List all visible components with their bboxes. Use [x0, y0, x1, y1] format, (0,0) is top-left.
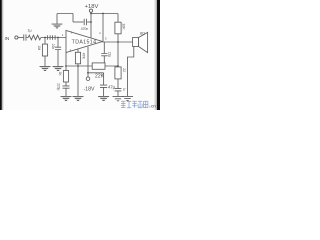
svg-text:TDA1514: TDA1514 — [72, 39, 97, 45]
svg-text:cn: cn — [151, 104, 156, 109]
svg-text:220µ: 220µ — [56, 83, 60, 90]
wire pin2 down — [65, 53, 67, 67]
junction dot -Vs — [87, 72, 89, 74]
wire R2 top — [44, 38, 46, 45]
wire C8 bottom — [65, 88, 67, 96]
junction dot C2 — [90, 21, 92, 23]
ground C8 — [61, 96, 72, 101]
ground R2 — [40, 66, 51, 71]
wire R 10K top — [117, 14, 119, 23]
svg-text:470n: 470n — [81, 27, 89, 31]
svg-text:1K: 1K — [58, 72, 62, 77]
wire bootstrap bottom — [103, 56, 105, 63]
svg-text:22µ: 22µ — [108, 52, 112, 58]
ground decoupling — [52, 24, 63, 28]
wire +Vs rail horizontal — [91, 13, 118, 15]
wire speaker return — [128, 47, 134, 97]
capacitor C2 470n — [84, 19, 86, 25]
wire C6 bottom — [103, 88, 105, 97]
resistor R6 1K — [63, 71, 68, 83]
ground speaker — [122, 96, 133, 100]
wire C7 bottom — [117, 91, 119, 96]
resistor 10K — [115, 22, 121, 34]
wire C3 top — [57, 38, 59, 48]
watermark — [121, 101, 148, 108]
wire cap C2 left — [73, 21, 84, 23]
wire R3 bottom — [77, 64, 79, 66]
svg-text:47µ: 47µ — [108, 84, 116, 89]
svg-text:47K: 47K — [82, 53, 86, 60]
wire -Vs vertical — [87, 47, 89, 77]
speaker LS1 — [133, 32, 148, 52]
wire cap C2 right — [87, 21, 91, 23]
capacitor C7 zobel — [115, 89, 122, 91]
capacitor C4 ticks — [48, 35, 56, 39]
junction dot input B — [57, 37, 59, 39]
wire C3 bottom — [57, 50, 59, 66]
junction dot zobel — [117, 65, 119, 67]
resistor R2 1M — [42, 44, 47, 56]
resistor R3 47K — [75, 52, 80, 64]
wire -Vs to C6 — [88, 73, 104, 85]
ground C3 — [53, 66, 64, 71]
wire R3 stub top — [77, 49, 79, 52]
svg-text:1M: 1M — [37, 46, 41, 51]
capacitor C5 bootstrap — [101, 54, 107, 56]
capacitor C3 — [55, 47, 61, 49]
svg-text:22n: 22n — [51, 44, 55, 50]
junction dot mid rail — [77, 65, 79, 67]
wire input to op-amp — [41, 37, 66, 39]
junction dot rail left — [90, 13, 92, 15]
resistor R4 22K — [92, 63, 105, 69]
wire R6 1K top — [65, 66, 67, 71]
wire input — [18, 37, 23, 39]
op-amp U1 TDA1514 — [66, 31, 103, 53]
svg-text:1µ: 1µ — [27, 29, 31, 33]
svg-text:22K: 22K — [95, 74, 105, 80]
svg-text:22: 22 — [122, 68, 126, 72]
wire pin4 drop — [102, 14, 104, 42]
wire R6 to C8 — [65, 82, 67, 86]
wire feedback rail — [66, 65, 118, 67]
junction dot input A — [44, 37, 46, 39]
resistor R5 zobel — [115, 67, 121, 79]
wire gnd branch x78 — [77, 66, 79, 96]
resistor R1 zigzag — [28, 35, 41, 40]
wire bootstrap top — [103, 42, 105, 53]
capacitor C1 input — [24, 34, 26, 40]
svg-text:IN: IN — [5, 36, 10, 42]
wire zobel top — [117, 42, 119, 67]
wire R 10K bottom — [117, 34, 119, 42]
ground zobel — [113, 97, 124, 101]
wire to R1 — [27, 37, 29, 39]
svg-text:10K: 10K — [122, 23, 126, 30]
wire output — [103, 41, 133, 43]
ground mid — [73, 96, 84, 101]
wire +Vs vertical to op-amp — [90, 12, 92, 38]
wire decoupling top — [57, 14, 73, 24]
terminal input — [15, 36, 18, 39]
svg-text:1µ: 1µ — [122, 88, 126, 92]
wire R2 bottom — [44, 56, 46, 66]
ground C6 — [98, 96, 109, 101]
capacitor C6 47u — [100, 85, 107, 87]
junction dot output — [117, 41, 119, 43]
terminal -18V — [86, 77, 90, 81]
wire zobel mid — [117, 79, 119, 88]
terminal +18V — [89, 9, 92, 12]
svg-text:-18V: -18V — [84, 87, 95, 93]
capacitor C8 220u — [63, 86, 70, 88]
svg-text:8Ω: 8Ω — [140, 32, 145, 36]
junction dot fb left — [65, 65, 67, 67]
junction dot rail mid — [102, 13, 104, 15]
